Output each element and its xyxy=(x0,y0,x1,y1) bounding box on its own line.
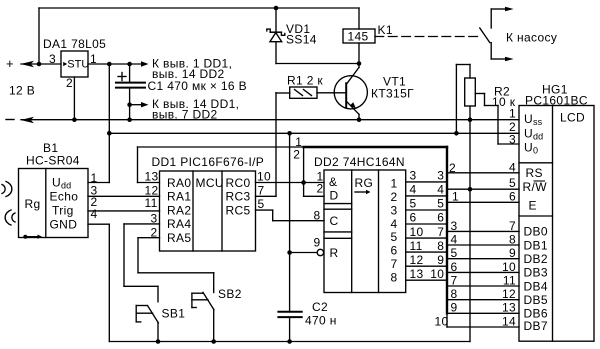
svg-text:RC0: RC0 xyxy=(226,176,251,190)
svg-text:DD1 PIC16F676-I/P: DD1 PIC16F676-I/P xyxy=(152,155,265,169)
svg-text:RA5: RA5 xyxy=(167,231,191,245)
svg-text:8: 8 xyxy=(451,287,458,301)
svg-text:GND: GND xyxy=(50,218,78,232)
svg-text:7: 7 xyxy=(437,225,444,239)
svg-text:6: 6 xyxy=(437,211,444,225)
svg-text:3: 3 xyxy=(391,203,398,217)
svg-text:7: 7 xyxy=(509,219,516,233)
svg-text:10: 10 xyxy=(410,225,424,239)
svg-text:+: + xyxy=(6,56,14,71)
svg-text:2: 2 xyxy=(151,226,158,240)
svg-text:PC1601BC: PC1601BC xyxy=(525,94,588,108)
svg-text:8: 8 xyxy=(509,232,516,246)
svg-text:RA0: RA0 xyxy=(167,176,191,190)
svg-text:MCU: MCU xyxy=(196,176,224,190)
svg-text:3: 3 xyxy=(437,169,444,183)
svg-text:1: 1 xyxy=(391,176,398,190)
svg-text:КТ315Г: КТ315Г xyxy=(371,87,414,101)
svg-text:7: 7 xyxy=(258,184,265,198)
svg-text:C2: C2 xyxy=(312,300,328,314)
svg-text:выв. 7 DD2: выв. 7 DD2 xyxy=(152,107,218,121)
svg-text:4: 4 xyxy=(91,207,98,221)
svg-text:10: 10 xyxy=(502,260,516,274)
svg-text:13: 13 xyxy=(145,170,159,184)
svg-text:6: 6 xyxy=(410,211,417,225)
svg-text:6: 6 xyxy=(451,260,458,274)
svg-text:RC3: RC3 xyxy=(226,190,251,204)
svg-text:3: 3 xyxy=(410,169,417,183)
svg-text:2: 2 xyxy=(66,76,73,90)
svg-text:4: 4 xyxy=(437,183,444,197)
svg-text:9: 9 xyxy=(509,246,516,260)
svg-text:5: 5 xyxy=(509,176,516,190)
svg-text:12: 12 xyxy=(410,253,424,267)
svg-text:9: 9 xyxy=(451,301,458,315)
svg-text:DB5: DB5 xyxy=(524,293,548,307)
svg-text:12: 12 xyxy=(502,287,516,301)
svg-text:14: 14 xyxy=(502,314,516,328)
svg-text:11: 11 xyxy=(503,273,516,287)
svg-text:Echo: Echo xyxy=(50,190,79,204)
svg-text:13: 13 xyxy=(410,267,424,281)
svg-text:SS14: SS14 xyxy=(286,33,317,47)
svg-text:11: 11 xyxy=(410,239,423,253)
svg-text:4: 4 xyxy=(509,161,516,175)
svg-text:RC5: RC5 xyxy=(226,203,251,217)
svg-text:DB7: DB7 xyxy=(524,319,548,333)
svg-text:7: 7 xyxy=(391,257,398,271)
svg-text:5: 5 xyxy=(410,197,417,211)
svg-text:Trig: Trig xyxy=(52,204,74,218)
svg-text:3: 3 xyxy=(49,52,56,66)
svg-text:RA1: RA1 xyxy=(167,190,191,204)
svg-text:3: 3 xyxy=(151,211,158,225)
svg-text:4: 4 xyxy=(410,183,417,197)
svg-text:RS: RS xyxy=(526,166,543,180)
svg-text:8: 8 xyxy=(391,271,398,285)
svg-text:RA4: RA4 xyxy=(167,217,191,231)
svg-text:8: 8 xyxy=(314,209,321,223)
svg-text:DB1: DB1 xyxy=(524,238,548,252)
svg-text:R1 2 к: R1 2 к xyxy=(287,74,323,88)
svg-text:RG: RG xyxy=(355,176,374,190)
svg-text:13: 13 xyxy=(502,301,516,315)
svg-text:9: 9 xyxy=(437,253,444,267)
svg-text:3: 3 xyxy=(451,219,458,233)
svg-text:5: 5 xyxy=(451,246,458,260)
svg-text:2: 2 xyxy=(317,182,324,196)
svg-text:R: R xyxy=(330,246,339,260)
svg-text:470 н: 470 н xyxy=(305,314,337,328)
svg-text:10: 10 xyxy=(257,170,271,184)
svg-text:D: D xyxy=(330,189,339,203)
svg-text:4: 4 xyxy=(451,232,458,246)
svg-text:C: C xyxy=(330,214,339,228)
svg-text:2: 2 xyxy=(293,148,300,162)
svg-text:Rg: Rg xyxy=(25,197,41,211)
svg-text:DB0: DB0 xyxy=(524,225,548,239)
svg-text:E: E xyxy=(529,199,537,213)
svg-text:7: 7 xyxy=(451,273,458,287)
svg-text:1: 1 xyxy=(452,190,459,204)
svg-text:12 В: 12 В xyxy=(9,84,35,98)
svg-text:6: 6 xyxy=(391,244,398,258)
svg-text:10: 10 xyxy=(430,267,444,281)
svg-text:HC-SR04: HC-SR04 xyxy=(26,154,80,168)
svg-text:RA2: RA2 xyxy=(167,203,191,217)
svg-text:SB2: SB2 xyxy=(218,287,242,301)
svg-text:5: 5 xyxy=(391,230,398,244)
svg-text:2: 2 xyxy=(391,190,398,204)
svg-text:SB1: SB1 xyxy=(162,307,186,321)
svg-text:R/W: R/W xyxy=(523,180,548,194)
svg-text:11: 11 xyxy=(145,196,158,210)
svg-text:LCD: LCD xyxy=(560,111,585,125)
svg-text:DB2: DB2 xyxy=(524,252,548,266)
svg-text:5: 5 xyxy=(437,197,444,211)
svg-text:145: 145 xyxy=(348,30,369,44)
svg-text:2: 2 xyxy=(449,161,456,175)
svg-text:DA1 78L05: DA1 78L05 xyxy=(43,37,106,51)
svg-text:9: 9 xyxy=(314,236,321,250)
svg-text:STU: STU xyxy=(67,59,89,71)
svg-text:DB3: DB3 xyxy=(524,266,548,280)
svg-text:К насосу: К насосу xyxy=(506,31,557,45)
svg-text:K1: K1 xyxy=(378,23,393,37)
svg-text:C1 470 мк × 16 В: C1 470 мк × 16 В xyxy=(148,79,248,93)
svg-text:DB4: DB4 xyxy=(524,279,548,293)
svg-text:6: 6 xyxy=(509,189,516,203)
svg-text:DD2 74HC164N: DD2 74HC164N xyxy=(314,155,405,169)
svg-text:8: 8 xyxy=(437,239,444,253)
svg-text:3: 3 xyxy=(509,132,516,146)
svg-text:1: 1 xyxy=(90,52,97,66)
svg-text:10: 10 xyxy=(434,315,448,329)
svg-text:5: 5 xyxy=(258,197,265,211)
svg-text:4: 4 xyxy=(391,217,398,231)
svg-text:1: 1 xyxy=(509,107,516,121)
svg-text:&: & xyxy=(329,175,337,189)
